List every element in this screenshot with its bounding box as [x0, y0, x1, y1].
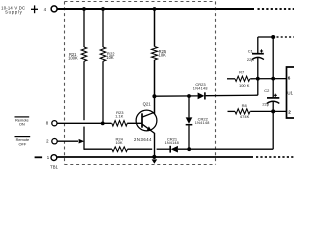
svg-text:U1: U1	[287, 90, 293, 95]
svg-text:474K: 474K	[240, 114, 250, 119]
svg-text:10K: 10K	[106, 55, 114, 60]
svg-text:ON: ON	[19, 122, 25, 127]
svg-text:100 K: 100 K	[239, 83, 250, 88]
svg-text:R8: R8	[242, 103, 248, 108]
svg-text:Supply: Supply	[5, 9, 22, 14]
svg-text:100K: 100K	[68, 56, 78, 61]
svg-text:C1: C1	[248, 48, 254, 53]
svg-text:C2: C2	[264, 88, 270, 93]
svg-text:2: 2	[288, 110, 291, 115]
svg-text:Q21: Q21	[143, 102, 152, 107]
svg-text:22μ: 22μ	[262, 101, 269, 106]
svg-text:22μ: 22μ	[247, 57, 254, 62]
svg-text:R7: R7	[239, 70, 245, 75]
svg-text:6: 6	[288, 76, 291, 81]
svg-text:OFF: OFF	[19, 141, 27, 146]
svg-text:TB1: TB1	[50, 165, 58, 170]
svg-text:10K: 10K	[115, 140, 122, 145]
svg-text:1N4148: 1N4148	[195, 121, 210, 125]
svg-text:2N3644: 2N3644	[134, 137, 152, 142]
svg-text:1N4148: 1N4148	[193, 87, 208, 91]
svg-text:1N4148: 1N4148	[165, 141, 179, 145]
svg-text:1.1K: 1.1K	[115, 113, 124, 118]
svg-text:10K: 10K	[159, 53, 167, 58]
